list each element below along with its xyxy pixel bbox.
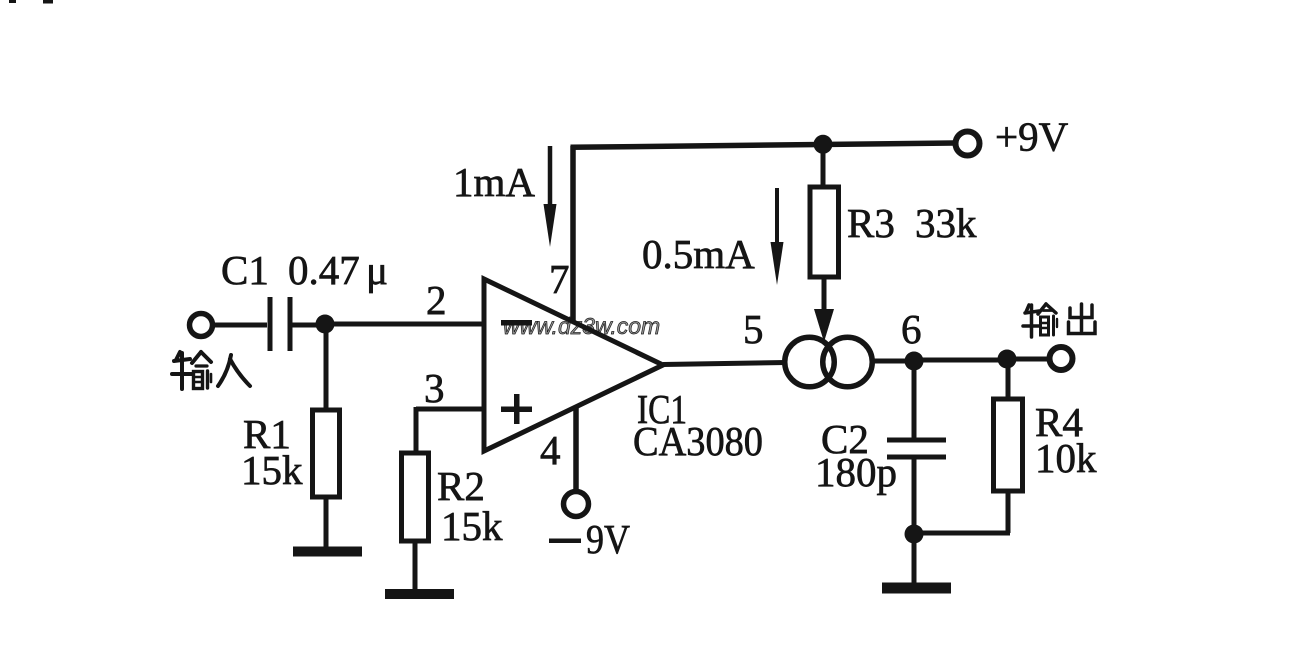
input terminal: [190, 314, 213, 337]
wire node A to op-amp inverting input (pin 2): [325, 322, 484, 327]
wire R1 to ground: [324, 497, 329, 548]
+9V supply rail wire: [571, 143, 955, 147]
svg-text:33k: 33k: [915, 200, 977, 246]
ground (R2): [385, 589, 454, 599]
wire R4 bottom: [1006, 491, 1011, 533]
wire R2 to ground: [413, 541, 418, 591]
wire op-amp pin 3 horizontal: [416, 407, 484, 412]
node 6 junction dot: [905, 352, 924, 371]
svg-text:6: 6: [901, 306, 922, 352]
wire current mirror to node 6: [870, 359, 914, 364]
capacitor C1: [270, 297, 290, 351]
svg-text:+9V: +9V: [995, 114, 1069, 160]
wire R4 to ground node: [914, 531, 1010, 536]
op-amp pin 4 wire: [573, 407, 579, 490]
svg-text:15k: 15k: [241, 447, 303, 493]
svg-text:3: 3: [424, 365, 445, 411]
wire node A down to R1: [324, 324, 329, 411]
rail junction node: [814, 135, 833, 154]
node A junction dot: [316, 315, 335, 334]
svg-text:μ: μ: [366, 247, 388, 293]
label -9V: [549, 539, 581, 544]
resistor R4: [994, 399, 1023, 491]
svg-text:15k: 15k: [441, 503, 503, 549]
wire C1 to node A: [292, 323, 325, 328]
resistor R1: [313, 410, 340, 497]
0.5mA current arrow: [771, 188, 784, 285]
svg-text:5: 5: [743, 306, 764, 352]
op-amp U1 triangle: [484, 279, 663, 451]
wire pin3 down to R2: [414, 407, 419, 455]
wire op-amp output (pin 5) to current mirror: [663, 363, 786, 365]
resistor R2: [402, 453, 429, 541]
1mA current arrow: [544, 146, 557, 247]
wire input to C1: [214, 323, 268, 328]
wire node 6 to output node: [914, 358, 1007, 363]
ground (R1): [293, 547, 362, 557]
+9V terminal: [956, 132, 980, 156]
wire R3 down to current mirror: [822, 277, 827, 318]
op-amp minus symbol: [501, 320, 532, 326]
svg-text:0.47: 0.47: [288, 247, 360, 293]
capacitor C2: [887, 440, 946, 457]
ground (C2/R4): [882, 583, 951, 594]
svg-text:0.5mA: 0.5mA: [642, 231, 755, 277]
wire down to ground: [912, 534, 917, 584]
svg-text:CA3080: CA3080: [633, 418, 763, 464]
R3 output arrow into mirror: [814, 309, 834, 342]
wire C2 to ground node: [912, 459, 917, 534]
op-amp pin 7 riser wire: [570, 146, 576, 322]
op-amp plus symbol: [501, 394, 532, 424]
current mirror U2 circles: [785, 337, 835, 387]
svg-text:7: 7: [549, 256, 570, 302]
wire rail to R3: [821, 144, 826, 188]
-9V terminal: [564, 492, 589, 517]
output node junction dot: [998, 350, 1017, 369]
ground node junction dot: [905, 525, 924, 544]
wire output node down to R4: [1006, 359, 1011, 400]
output terminal: [1050, 347, 1073, 370]
svg-text:4: 4: [540, 427, 561, 473]
svg-text:10k: 10k: [1035, 435, 1097, 481]
svg-text:180p: 180p: [815, 449, 897, 495]
svg-text:9V: 9V: [586, 516, 630, 562]
svg-text:2: 2: [426, 277, 447, 323]
label shuru (input): [172, 352, 250, 389]
scan artifacts top edge: [9, 0, 53, 4]
svg-text:C1: C1: [221, 247, 269, 293]
label shuchu (output): [1023, 304, 1095, 337]
wire to output terminal: [1007, 357, 1049, 362]
svg-text:R3: R3: [847, 200, 895, 246]
resistor R3: [810, 187, 839, 277]
svg-text:1mA: 1mA: [453, 159, 535, 205]
wire node 6 down to C2: [912, 361, 917, 438]
